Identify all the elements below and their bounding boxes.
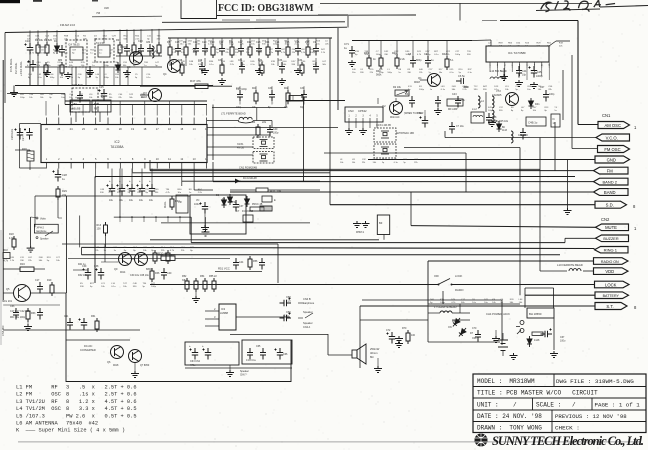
box B10 RBB	[92, 100, 111, 112]
svg-text:10u: 10u	[129, 199, 134, 202]
coil box L12	[471, 112, 484, 123]
svg-text:RING 1: RING 1	[604, 248, 618, 253]
capacitor C59	[280, 313, 292, 322]
svg-text:L10 FERRITE BEAD: L10 FERRITE BEAD	[557, 263, 583, 267]
IC3 pin 4 wire	[205, 325, 219, 327]
ground C71	[348, 60, 356, 67]
capacitor C44	[516, 66, 522, 78]
CN3 pins	[349, 118, 377, 128]
wire VCO feed	[445, 137, 596, 139]
svg-text:CN4 A: CN4 A	[303, 326, 311, 329]
wire pin5 drop	[94, 169, 96, 179]
bottom scan band	[18, 441, 640, 443]
svg-text:C23: C23	[256, 41, 261, 44]
svg-text:FM: FM	[607, 168, 614, 173]
capacitor CF5	[275, 348, 284, 360]
wire vert x66	[66, 196, 68, 293]
CN3 ground 2	[359, 128, 367, 135]
svg-text:100p: 100p	[229, 43, 235, 45]
resistor R35	[166, 250, 170, 264]
inductor L5	[492, 96, 494, 108]
svg-text:S.T.: S.T.	[606, 304, 613, 309]
svg-text:8 1.2 x 4.5T + 0.6: 8 1.2 x 4.5T + 0.6	[66, 399, 137, 405]
FCC underline dashes	[222, 19, 276, 21]
wire diode link	[452, 319, 470, 321]
resistor R31	[256, 188, 268, 192]
svg-text:C15: C15	[99, 86, 104, 89]
svg-text:AM OSC: AM OSC	[604, 123, 621, 128]
capacitor C28	[53, 170, 62, 182]
diode D4	[235, 179, 240, 184]
svg-text:R52: R52	[182, 275, 187, 278]
svg-text:C41: C41	[405, 93, 410, 96]
capacitor C47	[543, 90, 549, 102]
svg-text:Earphone: Earphone	[37, 230, 48, 233]
resistor R81	[44, 62, 48, 76]
top edge black streak	[0, 0, 20, 3]
crystal dashed box B	[253, 152, 274, 164]
capacitor C13	[138, 44, 144, 56]
CN3 ground 1	[345, 128, 353, 135]
battery box BH	[527, 308, 554, 318]
svg-text:9014 AC: 9014 AC	[390, 116, 400, 119]
capacitor C4	[425, 56, 431, 68]
resistor R2	[45, 42, 49, 56]
wire bus 104	[65, 104, 207, 106]
svg-text:C80: C80	[146, 42, 151, 44]
diode D80	[116, 62, 121, 73]
svg-text:R22: R22	[284, 88, 289, 90]
flag FM	[594, 167, 629, 174]
flag GND	[595, 156, 630, 163]
wire vert x540	[539, 138, 541, 272]
xtal dashed box 2	[374, 144, 396, 158]
svg-text:CONVERTER: CONVERTER	[80, 349, 96, 352]
wire vert x150	[149, 160, 151, 171]
svg-text:R32 10k: R32 10k	[78, 274, 88, 277]
wire vert x580 lower	[579, 227, 581, 238]
svg-text:R70: R70	[402, 327, 407, 330]
wire IC2 right 3	[207, 146, 253, 148]
top header line	[320, 3, 592, 5]
svg-text:800p: 800p	[416, 59, 422, 62]
svg-text:BATTERY: BATTERY	[603, 294, 620, 298]
IC1 body	[486, 46, 549, 62]
ground Q7	[131, 371, 139, 378]
IF ground 3	[294, 68, 302, 75]
wire TL verticals y67-85	[29, 67, 31, 86]
connector CN3 box	[345, 107, 383, 122]
company logo	[475, 434, 488, 447]
wire MUTE feed	[411, 226, 596, 228]
capacitor C40	[267, 125, 273, 137]
svg-text:R55 22: R55 22	[209, 275, 217, 278]
svg-text:C27: C27	[21, 136, 25, 141]
box preamp1	[190, 195, 246, 234]
wire bus y244	[62, 243, 278, 245]
svg-text:VC: VC	[196, 199, 200, 202]
svg-text:RAIL: RAIL	[163, 201, 167, 208]
dashed box crystal filter	[72, 88, 98, 112]
svg-text:R63: R63	[31, 312, 36, 315]
svg-text:R35: R35	[171, 254, 176, 257]
wire TL link1	[38, 46, 47, 48]
svg-text:S.D.: S.D.	[606, 203, 614, 208]
wire mid power	[360, 319, 428, 321]
wire vert x278	[277, 244, 279, 283]
wire y268 seg	[73, 269, 88, 271]
resistor R47	[195, 84, 208, 89]
ground mid box	[202, 230, 210, 237]
wire stub R3 down	[119, 56, 121, 86]
FCC label box	[181, 0, 217, 19]
power jack symbol	[516, 321, 524, 335]
flag LOCK	[595, 281, 630, 288]
svg-text:+: +	[189, 344, 191, 348]
svg-text:BH 18650: BH 18650	[529, 312, 542, 316]
wire batt bottom	[428, 341, 500, 343]
svg-text:C71: C71	[344, 42, 349, 46]
svg-text:R2 10k: R2 10k	[393, 86, 402, 89]
svg-text:C33: C33	[268, 88, 273, 90]
svg-text:C51: C51	[417, 112, 422, 115]
ground right column	[564, 208, 572, 215]
IF ground 2	[255, 68, 263, 75]
wire pin stubs to caps	[111, 169, 113, 185]
title block frame	[473, 374, 646, 433]
wire vert x213	[212, 162, 214, 182]
IC3 pin 2 wire	[205, 310, 219, 312]
svg-text:1143: 1143	[502, 130, 508, 132]
wire box to IC pin b	[99, 112, 101, 122]
capacitor C45	[529, 66, 538, 78]
svg-text:C20: C20	[202, 41, 207, 44]
capacitor C72	[387, 332, 396, 344]
flag RING1	[595, 247, 629, 253]
svg-text:0.1u 0.1u: 0.1u 0.1u	[246, 359, 257, 362]
svg-text:ABL/BB: ABL/BB	[72, 108, 81, 111]
svg-text:C13: C13	[138, 40, 143, 43]
wire bus y101	[65, 100, 207, 102]
svg-text:V.C.O.: V.C.O.	[606, 135, 618, 140]
filter box 1	[185, 342, 239, 365]
zener D5	[245, 196, 250, 207]
svg-text:R47 47k: R47 47k	[190, 79, 201, 83]
wire fm bus	[352, 40, 472, 42]
wire RING1 feed B	[82, 254, 561, 256]
svg-text:Q7 8050: Q7 8050	[140, 364, 150, 367]
wire comp bus top	[29, 30, 31, 43]
box CB1 ABL	[70, 100, 90, 112]
IF strip components	[168, 44, 172, 58]
IC5 inner body	[98, 45, 110, 57]
svg-text:FM AM 13.6: FM AM 13.6	[60, 23, 76, 27]
wire vert x338	[337, 28, 339, 110]
wire fm mid	[404, 147, 520, 149]
svg-text:9018: 9018	[414, 80, 420, 84]
svg-text:IC3: IC3	[221, 307, 226, 311]
wire top bus B	[5, 27, 347, 32]
connector box small	[289, 96, 303, 102]
wire left margin vertical	[4, 33, 6, 104]
svg-text:Q5: Q5	[6, 287, 10, 291]
capacitor C10	[25, 43, 34, 55]
svg-text:TA 0.5V: TA 0.5V	[96, 42, 105, 45]
svg-text:C37: C37	[239, 205, 244, 208]
capacitor C43	[455, 96, 461, 108]
svg-text:C40: C40	[167, 272, 172, 275]
svg-text:10u: 10u	[149, 199, 154, 202]
inductor L3	[152, 46, 154, 58]
resistor PRCC	[250, 207, 264, 211]
wire top joint	[318, 14, 348, 16]
wire filter bottom	[185, 367, 292, 369]
wire power row	[428, 303, 520, 305]
resistor R47b	[256, 124, 260, 138]
svg-text:C30 10u C38 10u: C30 10u C38 10u	[130, 274, 149, 277]
svg-text:100p: 100p	[492, 121, 498, 123]
wire IC2 right 2	[207, 134, 270, 136]
capacitor C64L	[37, 308, 43, 320]
svg-text:IC4 78L05: IC4 78L05	[68, 44, 80, 47]
capacitor C51 tall	[420, 116, 429, 128]
svg-text:R16: R16	[20, 262, 25, 266]
svg-text:GND: GND	[607, 157, 616, 162]
svg-text:C38: C38	[94, 265, 99, 268]
capacitor C38	[96, 268, 105, 280]
resistor R52	[185, 278, 189, 292]
svg-text:C2 RAIL: C2 RAIL	[14, 62, 18, 74]
wire stub C10 down	[29, 54, 31, 86]
svg-text:CN2: CN2	[601, 217, 610, 222]
battery cell	[498, 340, 508, 351]
wire bus y93	[7, 93, 65, 95]
wire pin7 drop	[119, 169, 121, 218]
svg-text:+: +	[129, 179, 131, 183]
capacitor C52	[449, 122, 455, 134]
svg-text:C70: C70	[472, 327, 477, 330]
wire VDD feed a	[540, 270, 567, 272]
svg-text:2.2k: 2.2k	[400, 58, 405, 61]
capacitor C40b	[161, 268, 167, 280]
filter box 2	[242, 340, 292, 364]
svg-text:XPH-2: XPH-2	[37, 227, 45, 230]
capacitor C17	[37, 282, 43, 294]
wire pin12 drop	[181, 169, 183, 187]
svg-text:MHM>1: MHM>1	[356, 231, 365, 234]
capacitor C80	[147, 44, 153, 56]
svg-text:C72: C72	[386, 329, 391, 332]
svg-text:TA1308A: TA1308A	[110, 145, 124, 149]
box IC14	[551, 114, 560, 127]
ferrite bead L10	[569, 269, 581, 271]
svg-text:LM388: LM388	[220, 311, 228, 315]
resistor R40	[379, 55, 383, 69]
svg-text:DATE : 24 NOV. '98: DATE : 24 NOV. '98	[477, 413, 542, 420]
svg-text:SUNNY TECH Electronic Co., Ltd: SUNNY TECH Electronic Co., Ltd.	[492, 434, 644, 448]
flag BAND	[594, 189, 629, 196]
capacitor C14 in box	[77, 91, 83, 103]
svg-text:Video: Video	[40, 219, 47, 221]
wire bus y217 stubs	[119, 217, 121, 222]
bead symbol	[260, 206, 272, 211]
wire D4 row	[182, 180, 320, 182]
wire x213 upper	[212, 105, 214, 161]
IC2 top pins 26-14	[45, 118, 208, 132]
svg-text:318: 318	[104, 6, 109, 10]
wire spk	[327, 334, 329, 355]
wire right vertical bus	[577, 21, 579, 125]
ground R53	[192, 296, 200, 303]
svg-text:C26 RAIL: C26 RAIL	[10, 128, 14, 140]
wire vert x348 top	[347, 16, 349, 28]
wire IC1 topright	[549, 41, 556, 46]
svg-text:LOCK: LOCK	[605, 282, 617, 287]
svg-text:4M 3B: 4M 3B	[237, 147, 244, 150]
inductor L4	[478, 96, 480, 108]
svg-text:2.2u: 2.2u	[284, 315, 289, 318]
capacitor C41	[409, 96, 415, 108]
svg-text:L6 AM ANTENNA: L6 AM ANTENNA	[16, 421, 58, 427]
capacitor C71	[349, 46, 355, 58]
wire y340	[66, 339, 130, 341]
capacitor C81	[87, 66, 93, 78]
resistor R56	[248, 256, 252, 270]
wire left vertical bus	[2, 60, 4, 300]
ground speaker2	[395, 341, 403, 348]
svg-text:R56: R56	[253, 260, 258, 263]
svg-text:100p: 100p	[426, 54, 432, 56]
wire Q3 base	[140, 94, 149, 96]
ground speaker	[374, 366, 382, 373]
wire pin13 drop	[193, 169, 195, 191]
svg-text:CP632: CP632	[358, 109, 367, 113]
wire RADIO feed	[428, 260, 594, 262]
flag FM OSC	[598, 146, 630, 153]
resistor R19	[50, 282, 54, 296]
wire bus y153	[324, 152, 466, 154]
svg-text:1000p: 1000p	[536, 75, 543, 78]
svg-text:C28: C28	[62, 173, 67, 177]
wire y330	[3, 329, 140, 331]
svg-text:LOCK: LOCK	[455, 274, 463, 278]
svg-text:7M: 7M	[96, 11, 101, 15]
wire y271 R51	[215, 271, 262, 273]
svg-text:L3 TV1/2U RF: L3 TV1/2U RF	[16, 399, 58, 405]
wire GND feed	[368, 159, 595, 161]
svg-text:Speaker: Speaker	[303, 321, 313, 325]
wire bus y169	[150, 168, 540, 170]
flag MUTE	[596, 224, 629, 231]
svg-text:Earphone: Earphone	[303, 301, 315, 305]
svg-text:L5 /1G7.3: L5 /1G7.3	[16, 413, 45, 419]
svg-text:C6 5p: C6 5p	[458, 74, 465, 78]
svg-text:40mm: 40mm	[370, 351, 378, 355]
flag SD	[595, 201, 627, 208]
wire Q2 stub	[377, 98, 379, 104]
coupling cluster comps	[237, 90, 243, 102]
trimmer R2t	[395, 90, 409, 96]
capacitor C5	[410, 56, 416, 68]
capacitor C45b	[259, 258, 265, 270]
IF strip row2 components	[180, 62, 184, 76]
svg-text:DN4 BYD: DN4 BYD	[72, 84, 83, 87]
wire corner dash	[482, 20, 497, 22]
wire VDD feed b	[583, 270, 594, 272]
svg-text:FM OSC: FM OSC	[604, 147, 620, 152]
svg-text:PAGE : 1 of 1: PAGE : 1 of 1	[595, 402, 641, 409]
wire y222 seg	[161, 222, 310, 224]
capacitor C61	[67, 318, 73, 330]
wire top corner horizontal	[500, 20, 578, 22]
svg-text:Q1: Q1	[418, 76, 422, 80]
svg-text:BUZZER: BUZZER	[603, 237, 618, 241]
resistor R41	[395, 55, 399, 69]
resistor R36	[150, 268, 154, 282]
wire bus y217	[114, 216, 191, 218]
svg-text:100p: 100p	[236, 107, 242, 109]
wire vert x466	[465, 153, 467, 192]
resistor R39	[367, 55, 371, 69]
wire L7	[428, 312, 440, 314]
svg-text:L1.2: L1.2	[472, 108, 477, 111]
svg-text:C17: C17	[35, 279, 40, 282]
svg-text:100p: 100p	[151, 286, 157, 288]
svg-text:100p: 100p	[419, 89, 425, 91]
wire y305	[3, 304, 60, 306]
svg-text:R36: R36	[155, 272, 160, 275]
wire vert x95	[94, 177, 96, 284]
wire IC2 pin risers	[45, 101, 47, 116]
capacitor C58	[280, 298, 292, 307]
ground lowleft	[24, 324, 32, 331]
svg-text:9014: 9014	[120, 271, 126, 274]
wire power outline	[362, 300, 502, 345]
transistor Q4	[168, 60, 181, 73]
svg-text:RBB: RBB	[94, 108, 99, 111]
top edge tick 1	[33, 0, 42, 2]
wire IF bus	[168, 37, 332, 39]
capacitor R48	[486, 113, 492, 125]
svg-text:9018: 9018	[113, 364, 119, 367]
diode D7	[457, 326, 468, 338]
jack XPH-2 box	[34, 224, 58, 233]
svg-text:RADIO ON: RADIO ON	[601, 260, 619, 264]
wire bus y176	[95, 176, 575, 178]
wire vert x460	[459, 304, 461, 313]
wire vert x555	[554, 122, 556, 171]
box C4B	[526, 117, 546, 126]
svg-text:R80: R80	[58, 60, 63, 62]
IC4 dashed box	[66, 40, 87, 67]
svg-text:Q4: Q4	[163, 72, 167, 76]
wire mid bus y67	[25, 66, 162, 68]
capacitor C6	[456, 78, 469, 87]
resistor R42	[445, 56, 449, 70]
xtal dashed box 1	[374, 128, 396, 142]
svg-text:VDD: VDD	[605, 269, 614, 274]
wire IC2 left	[20, 123, 42, 125]
svg-text:C7: C7	[236, 209, 240, 213]
svg-text:C1N RAIL: C1N RAIL	[9, 58, 13, 72]
svg-text:R54: R54	[200, 275, 205, 278]
svg-text:PRCC 4B: PRCC 4B	[252, 203, 263, 206]
wire BAND2 feed	[213, 181, 594, 183]
wire Q5 net	[3, 292, 13, 294]
resistor R18	[12, 236, 16, 250]
transistor Q7	[129, 350, 142, 363]
wire Q1 base	[420, 79, 428, 81]
